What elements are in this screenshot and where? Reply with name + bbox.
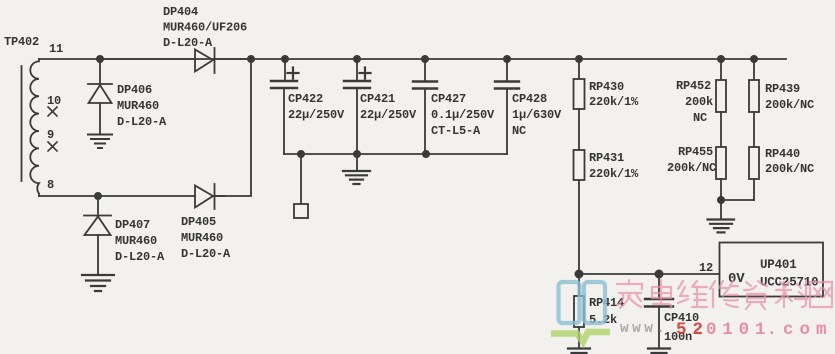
svg-text:RP430: RP430 (589, 80, 624, 94)
svg-text:CP428: CP428 (512, 92, 547, 106)
svg-text:220k/1%: 220k/1% (589, 95, 639, 109)
resistor RP452 (716, 59, 726, 112)
char dian (652, 280, 671, 308)
ground (RP414) (568, 349, 590, 354)
char wei (678, 281, 707, 307)
svg-text:10: 10 (47, 94, 61, 108)
capacitor CP427 (413, 59, 437, 154)
svg-text:12: 12 (699, 261, 713, 275)
capacitor CP421 (344, 59, 371, 154)
ground (DP406) (88, 135, 112, 149)
svg-text:MUR460: MUR460 (117, 99, 159, 113)
svg-text:CP422: CP422 (288, 92, 323, 106)
svg-text:0.1μ/250V: 0.1μ/250V (431, 108, 495, 122)
char xiu (710, 281, 738, 307)
node: junction CP428 (504, 56, 510, 62)
wire: capacitor bottom rail (284, 153, 507, 155)
svg-text:MUR460: MUR460 (115, 234, 157, 248)
diode DP405 (195, 184, 225, 209)
diode DP406 (88, 59, 112, 134)
char wang (810, 282, 832, 307)
svg-text:200k/NC: 200k/NC (667, 161, 716, 175)
svg-text:8: 8 (47, 178, 54, 192)
svg-text:0101: 0101 (706, 320, 771, 340)
svg-text:RP439: RP439 (765, 82, 800, 96)
svg-text:D-L20-A: D-L20-A (181, 247, 231, 261)
node: junction square tap (298, 151, 304, 157)
svg-text:200k: 200k (685, 95, 713, 109)
wire: RP455/RP440 bottoms join (721, 199, 754, 201)
svg-text:www.: www. (620, 321, 668, 337)
svg-text:DP407: DP407 (115, 218, 150, 232)
node: junction divider ground (718, 197, 724, 203)
ground (DP407) (82, 275, 114, 291)
resistor RP440 (749, 112, 759, 200)
wire: DP405 output riser (214, 59, 251, 196)
transformer TP402 core bar (21, 66, 23, 181)
watermark logo swoosh (551, 332, 610, 342)
svg-text:RP440: RP440 (765, 147, 800, 161)
resistor RP430 (574, 59, 585, 109)
svg-text:DP406: DP406 (117, 83, 152, 97)
svg-text:200k/NC: 200k/NC (765, 98, 814, 112)
watermark chinese characters (617, 280, 832, 309)
ground (divider) (708, 200, 735, 232)
svg-text:MUR460/UF206: MUR460/UF206 (163, 21, 247, 35)
node: junction CP421 ground (354, 151, 360, 157)
tap X pin 10 (48, 107, 57, 116)
svg-text:CT-L5-A: CT-L5-A (431, 124, 481, 138)
capacitor CP422 (271, 59, 299, 154)
node: junction CP422 (282, 56, 288, 62)
char jia (617, 280, 642, 308)
svg-text:NC: NC (693, 111, 707, 125)
svg-text:NC: NC (512, 124, 526, 138)
svg-text:.com: .com (767, 320, 833, 340)
svg-text:22μ/250V: 22μ/250V (288, 108, 345, 122)
capacitor CP410 (645, 274, 673, 349)
node: junction DP405 riser (248, 56, 254, 62)
resistor RP455 (716, 112, 726, 200)
svg-text:DP404: DP404 (163, 5, 198, 19)
ground (CP421 bottom rail) (343, 154, 370, 184)
char zi (744, 281, 767, 309)
node: junction CP427 bottom (423, 151, 429, 157)
svg-text:52: 52 (676, 320, 709, 340)
resistor RP439 (749, 59, 759, 112)
svg-text:1μ/630V: 1μ/630V (512, 108, 562, 122)
wire: top rail (39, 58, 786, 60)
IC UP401 box (720, 243, 824, 297)
node: junction CP427 (422, 56, 428, 62)
transformer TP402 winding (30, 59, 39, 196)
svg-text:RP455: RP455 (678, 145, 713, 159)
node: junction RP430 (576, 56, 582, 62)
node: junction RP452 (718, 56, 724, 62)
svg-text:UP401: UP401 (760, 258, 797, 272)
svg-text:22μ/250V: 22μ/250V (360, 108, 417, 122)
diode DP407 (84, 196, 111, 275)
svg-text:TP402: TP402 (4, 35, 39, 49)
svg-text:11: 11 (49, 42, 63, 56)
svg-text:D-L20-A: D-L20-A (163, 36, 213, 50)
node: junction RP414 (575, 270, 582, 277)
wire: feedback line to UP401 pin 12 (579, 273, 720, 275)
node: junction pin8/DP407 (95, 193, 101, 199)
wire: bottom secondary from pin 8 (39, 195, 195, 197)
connector square pad (294, 154, 308, 218)
svg-text:D-L20-A: D-L20-A (115, 250, 165, 264)
watermark logo book (559, 282, 606, 323)
char liao (776, 281, 807, 307)
svg-text:D-L20-A: D-L20-A (117, 115, 167, 129)
node: junction RP439 (751, 56, 757, 62)
diode DP404 (100, 48, 251, 73)
node: junction CP421 (354, 56, 360, 62)
svg-text:RP452: RP452 (676, 79, 711, 93)
svg-text:CP421: CP421 (360, 92, 395, 106)
svg-text:RP431: RP431 (589, 151, 624, 165)
svg-text:MUR460: MUR460 (181, 231, 223, 245)
svg-text:DP405: DP405 (181, 215, 216, 229)
svg-text:200k/NC: 200k/NC (765, 162, 814, 176)
node: junction CP410 (655, 270, 662, 277)
tap X pin 9 (48, 142, 57, 151)
svg-text:9: 9 (47, 128, 54, 142)
resistor RP414 (574, 274, 584, 349)
resistor RP431 (574, 109, 585, 274)
ground (CP410) (648, 349, 670, 354)
node: junction pin11/DP406 (97, 56, 103, 62)
svg-text:CP427: CP427 (431, 92, 466, 106)
svg-text:220k/1%: 220k/1% (589, 167, 639, 181)
capacitor CP428 (495, 59, 519, 154)
